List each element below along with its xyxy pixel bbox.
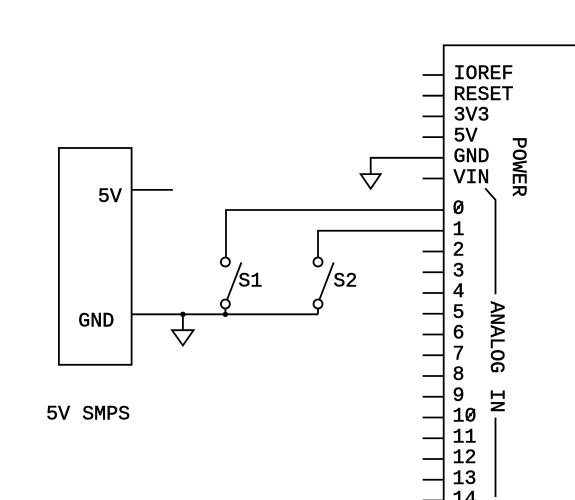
pin 5V [423,136,444,138]
svg-text:9: 9 [453,385,465,408]
svg-text:S2: S2 [333,271,357,294]
pin 5 [423,313,444,315]
wire pin0 to S1 [226,210,444,258]
svg-text:IOREF: IOREF [454,63,514,86]
wire GND net [132,313,318,315]
pin 9 [423,396,444,398]
svg-text:11: 11 [453,426,477,449]
svg-text:6: 6 [453,323,465,346]
pin 4 [423,292,444,294]
pin 8 [423,375,444,377]
pin 6 [423,334,444,336]
pin 2 [423,251,444,253]
svg-text:RESET: RESET [454,84,514,107]
ground symbol lower [182,314,184,330]
svg-text:IN: IN [484,389,507,413]
wire pin1 to S2 [318,231,444,258]
switch S2 [320,263,334,300]
wire 5V stub [132,189,173,191]
junction ground-net at ground symbol [180,312,185,317]
analog-in bracket [485,188,495,294]
pin 7 [423,354,444,356]
slash of zero in pin 10 [466,409,475,420]
pin 3 [423,271,444,273]
slash of zero pin 0 [454,202,463,213]
svg-text:10: 10 [453,406,477,429]
svg-text:5: 5 [453,302,465,325]
pin 10 [423,417,444,419]
svg-text:7: 7 [453,343,465,366]
svg-text:ANALOG: ANALOG [484,301,507,373]
pin 12 [423,458,444,460]
svg-text:14: 14 [453,489,477,500]
pin 13 [423,479,444,481]
pin RESET [423,95,444,97]
ground symbol upper [361,174,381,189]
svg-text:2: 2 [453,240,465,263]
svg-text:POWER: POWER [506,137,529,197]
svg-text:5V SMPS: 5V SMPS [46,404,130,427]
connector J1 body [444,45,575,500]
svg-text:8: 8 [453,364,465,387]
svg-text:GND: GND [78,310,114,333]
svg-text:4: 4 [453,281,465,304]
switch S1 [227,263,241,300]
svg-text:GND: GND [454,146,490,169]
pin VIN [423,178,444,180]
analog-in bracket lower [495,418,497,497]
junction ground-net at S1 [223,312,228,317]
svg-text:S1: S1 [238,271,262,294]
pin 11 [423,437,444,439]
pin IOREF [423,74,444,76]
svg-text:13: 13 [453,468,477,491]
svg-text:1: 1 [453,219,465,242]
power supply box PS1 [59,148,132,365]
svg-text:5V: 5V [454,125,478,148]
wire GND pin to ground [371,158,444,174]
svg-text:3V3: 3V3 [454,105,490,128]
svg-text:VIN: VIN [454,167,490,190]
svg-text:5V: 5V [98,186,122,209]
pin 3V3 [423,115,444,117]
svg-text:3: 3 [453,260,465,283]
svg-text:12: 12 [453,447,477,470]
